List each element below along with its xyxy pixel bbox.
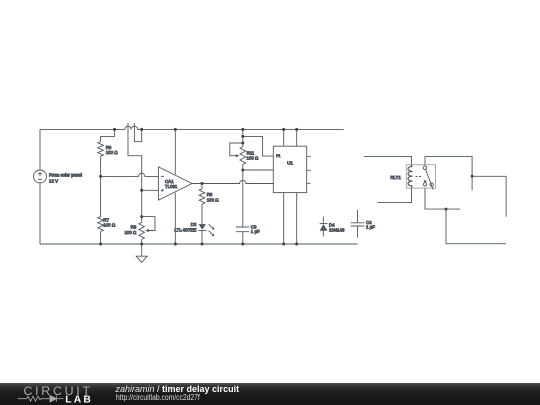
svg-text:12 V: 12 V: [49, 179, 58, 184]
svg-text:1N4148: 1N4148: [329, 228, 345, 233]
svg-text:TL081: TL081: [165, 184, 178, 189]
svg-text:R11: R11: [247, 150, 255, 155]
svg-text:1 µF: 1 µF: [251, 229, 260, 234]
svg-text:1 µF: 1 µF: [366, 225, 375, 230]
svg-text:LAB: LAB: [65, 395, 93, 405]
svg-text:100 Ω: 100 Ω: [106, 150, 119, 155]
svg-text:U1: U1: [287, 160, 293, 165]
svg-text:From solar panel: From solar panel: [49, 172, 82, 177]
svg-text:P1: P1: [276, 154, 280, 158]
svg-text:100 Ω: 100 Ω: [103, 223, 116, 228]
svg-text:D3: D3: [191, 222, 197, 227]
svg-text:100 Ω: 100 Ω: [124, 230, 137, 235]
svg-text:100 Ω: 100 Ω: [247, 156, 260, 161]
svg-text:RLY1: RLY1: [390, 175, 401, 180]
svg-text:LTL-307EE: LTL-307EE: [174, 228, 196, 233]
svg-text:100 Ω: 100 Ω: [207, 197, 220, 202]
